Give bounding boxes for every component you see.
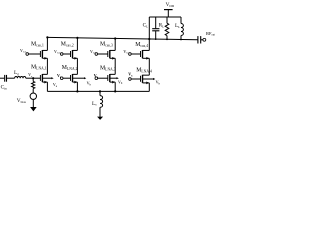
svg-text:Vb: Vb xyxy=(57,73,62,79)
wire Mcas4 source to MLNA4 drain xyxy=(148,58,150,75)
wire Mcas3 drain xyxy=(114,38,116,50)
node rail-RL xyxy=(166,38,168,40)
svg-text:MLNA,1: MLNA,1 xyxy=(31,64,47,71)
svg-text:Vb: Vb xyxy=(156,80,161,86)
terminal RFout xyxy=(203,38,206,41)
voltage source Vbias xyxy=(30,93,36,99)
svg-text:Cin: Cin xyxy=(1,84,7,90)
svg-text:Va: Va xyxy=(53,82,58,88)
terminal Vb2 xyxy=(60,77,70,80)
transistor MLNA3 xyxy=(108,74,115,83)
node rail-Mcas3 xyxy=(114,37,116,39)
capacitor Cin xyxy=(5,75,7,82)
resistor RL xyxy=(165,17,169,39)
capacitor CL xyxy=(152,17,159,39)
svg-text:Va: Va xyxy=(28,72,33,78)
MLNA3 body stub xyxy=(110,77,119,79)
wire Cin to Lg xyxy=(7,77,15,79)
svg-text:RFout: RFout xyxy=(206,31,215,37)
resistor Rbias xyxy=(32,81,35,88)
svg-text:VG1: VG1 xyxy=(20,48,27,54)
svg-text:Ls: Ls xyxy=(92,101,97,107)
MLNA1 body stub xyxy=(42,77,53,79)
svg-text:Lg: Lg xyxy=(14,70,19,76)
svg-text:RL: RL xyxy=(159,23,165,29)
svg-text:VG2: VG2 xyxy=(54,49,61,55)
wire input xyxy=(0,77,4,79)
node rail-MLNA2 xyxy=(76,90,78,92)
transistor Mcas1 xyxy=(40,50,47,60)
capacitor Cout xyxy=(198,36,203,43)
node rail-MLNA3 xyxy=(114,90,116,92)
inductor Lg xyxy=(15,76,26,78)
wire Mcas2 drain xyxy=(76,38,78,51)
svg-text:Vbias: Vbias xyxy=(17,98,27,104)
ground (Vbias) xyxy=(30,107,37,111)
wire output rail xyxy=(47,37,198,39)
wire resistor to Vbias xyxy=(32,89,34,93)
svg-text:Vb: Vb xyxy=(118,79,123,85)
svg-text:MLNA,2: MLNA,2 xyxy=(62,65,78,72)
wire tank left leg to Mcas4 drain xyxy=(148,17,150,50)
svg-text:Mcas,4: Mcas,4 xyxy=(135,42,148,49)
VDD supply bar xyxy=(164,9,173,11)
wire VDD stem xyxy=(167,10,169,17)
node rail-tank xyxy=(148,38,150,40)
transistor MLNA1 xyxy=(40,74,47,83)
wire tank top rail xyxy=(149,16,181,18)
wire Mcas2 source to MLNA2 drain xyxy=(76,58,78,74)
wire Vbias to ground xyxy=(32,99,34,107)
MLNA2 body stub xyxy=(73,77,87,79)
svg-text:Vb: Vb xyxy=(128,72,133,78)
ground (Ls) xyxy=(97,117,103,120)
node rail-LL xyxy=(180,39,182,41)
transistor Mcas3 xyxy=(108,50,115,60)
svg-text:CL: CL xyxy=(143,22,149,28)
wire MLNA4 source xyxy=(148,83,150,92)
svg-text:MLNA,4: MLNA,4 xyxy=(136,67,152,74)
node rail-Mcas2 xyxy=(76,37,78,39)
transistor Mcas2 xyxy=(71,50,78,60)
MLNA4 body stub xyxy=(143,78,156,80)
svg-text:Mcas,1: Mcas,1 xyxy=(31,42,44,49)
svg-text:VG4: VG4 xyxy=(123,49,130,55)
wire Mcas1 drain xyxy=(46,37,48,50)
node rail-Mcas1 xyxy=(46,36,48,38)
terminal Vb4 xyxy=(129,78,141,81)
terminal VG1 xyxy=(26,53,41,56)
svg-text:VDD: VDD xyxy=(166,2,175,8)
terminal VG2 xyxy=(60,53,70,56)
svg-text:Mcas,3: Mcas,3 xyxy=(100,41,113,48)
wire Mcas3 source to MLNA3 drain xyxy=(114,58,116,74)
inductor LL xyxy=(181,17,183,40)
wire Va to bias resistor xyxy=(32,78,34,81)
transistor Mcas4 xyxy=(141,50,150,60)
terminal VG4 xyxy=(129,53,141,56)
terminal VG3 xyxy=(95,53,108,56)
wire MLNA3 source xyxy=(114,82,116,91)
svg-text:MLNA,3: MLNA,3 xyxy=(100,65,116,72)
wire Lg to M_LNA1 gate xyxy=(26,77,41,79)
svg-text:Vb: Vb xyxy=(94,73,99,79)
node rail-CL xyxy=(155,38,157,40)
svg-text:LL: LL xyxy=(175,23,180,29)
wire source rail xyxy=(47,90,149,92)
inductor Ls xyxy=(100,91,103,116)
wire MLNA2 source xyxy=(76,82,78,91)
node rail-Ls xyxy=(99,90,101,92)
svg-text:VG3: VG3 xyxy=(90,49,97,55)
svg-text:Mcas,2: Mcas,2 xyxy=(61,42,74,49)
terminal Vb3 xyxy=(95,77,108,80)
wire MLNA1 source xyxy=(46,82,48,91)
transistor MLNA2 xyxy=(71,74,78,83)
wire Mcas1 source to MLNA1 drain xyxy=(46,58,48,74)
svg-text:Vb: Vb xyxy=(87,81,92,87)
node Va xyxy=(32,77,34,79)
transistor MLNA4 xyxy=(141,75,150,84)
